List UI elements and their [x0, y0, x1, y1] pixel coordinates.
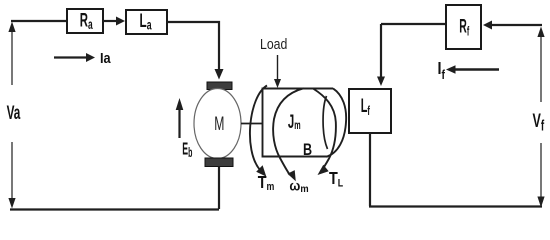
- load cylinder right cap outer curve: [327, 88, 347, 156]
- resistor R_a: [67, 9, 103, 33]
- resistor R_f: [446, 5, 481, 49]
- svg-text:Load: Load: [260, 36, 287, 52]
- shaft wire motor to load: [241, 123, 263, 125]
- load cylinder body: [263, 89, 334, 157]
- svg-text:Va: Va: [7, 103, 21, 123]
- wire: field top: [381, 23, 446, 25]
- wire Ra to La with arrowhead: [103, 20, 117, 22]
- svg-text:M: M: [214, 115, 224, 135]
- wire: bottom left: [10, 208, 219, 210]
- wire La to motor with down arrow: [167, 22, 219, 69]
- wire: Lf down to bottom: [369, 133, 371, 206]
- node Vf down arrow: [540, 143, 542, 198]
- label Eb with up arrow: [178, 108, 180, 138]
- inductor L_f: [349, 89, 391, 133]
- arrow Tm swirl arc: [250, 86, 267, 171]
- wire: bottom right: [369, 205, 542, 207]
- node Vf up arrow: [540, 30, 542, 102]
- node Va down arrow: [11, 142, 13, 200]
- wire Rf right with left arrowhead: [491, 24, 542, 26]
- label Ia with arrow: [54, 56, 87, 58]
- arrow omega_m swirl arc: [273, 88, 303, 175]
- wire: armature top: [11, 20, 67, 22]
- brush top: [207, 82, 232, 90]
- arrow TL swirl arc: [313, 89, 336, 172]
- inductor L_a: [126, 10, 167, 34]
- svg-text:Ia: Ia: [100, 49, 111, 66]
- brush bottom: [205, 158, 233, 167]
- motor M: [194, 89, 241, 159]
- wire: field left down with arrowhead: [380, 24, 382, 77]
- svg-text:B: B: [303, 140, 312, 159]
- node Va up arrow: [11, 27, 13, 85]
- wire motor bottom: [218, 167, 220, 210]
- load cylinder right cap inner curve: [323, 96, 327, 149]
